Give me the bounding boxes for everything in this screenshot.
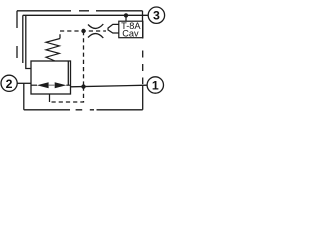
wire port3 line	[23, 14, 148, 16]
svg-text:3: 3	[153, 9, 160, 23]
valve arrow stub left	[31, 84, 37, 86]
wire port2 line	[17, 82, 31, 84]
cartridge outline left + jog into valve	[26, 15, 31, 68]
wire port1 line	[71, 85, 148, 87]
pilot line horizontal through orifice	[60, 30, 106, 32]
valve arrow right head	[55, 82, 67, 88]
cartridge outline bottom solid left	[24, 109, 70, 111]
port circle 2	[1, 75, 17, 91]
cartridge outline bottom-left vertical from port2 line	[23, 83, 25, 110]
orifice arcs	[88, 24, 103, 28]
port circle 1	[147, 77, 163, 93]
svg-text:1: 1	[152, 78, 159, 92]
valve arrow stub right	[66, 84, 70, 86]
spring	[46, 39, 60, 62]
T-8A cavity box	[119, 21, 143, 38]
valve arrow left head	[37, 82, 49, 88]
drain stub into valve bottom	[49, 94, 51, 102]
junction dot at orifice	[81, 29, 85, 33]
boundary right dashes (x=142.7 mid-span)	[142, 51, 144, 85]
valve arrow connector	[49, 84, 55, 86]
boundary left (dashed envelope)	[16, 11, 18, 58]
T-8A callout pointer	[108, 24, 119, 33]
svg-text:2: 2	[6, 77, 13, 91]
valve internal vertical (seat)	[67, 61, 69, 85]
cavity callout leader	[125, 15, 127, 21]
boundary top (dashed envelope)	[17, 10, 143, 12]
svg-text:Cav: Cav	[122, 28, 139, 38]
port circle 3	[148, 7, 164, 23]
pilot drain below port1 line	[50, 87, 84, 102]
cartridge outline bottom dashed middle	[70, 109, 97, 111]
junction dot on port3 line	[124, 13, 128, 17]
pilot vertical from orifice junction to port1 line	[83, 31, 85, 87]
junction dot on port1 line	[81, 84, 85, 88]
valve box envelope	[31, 61, 71, 94]
cartridge outline right upper (solid, shared with T-8A box)	[142, 21, 144, 38]
cartridge outline bottom solid right + right lower vertical	[97, 85, 143, 110]
pilot line down to spring	[59, 31, 61, 38]
boundary top-right corner drop	[142, 11, 144, 21]
wire port3 corner stub (left, free end)	[22, 15, 24, 63]
